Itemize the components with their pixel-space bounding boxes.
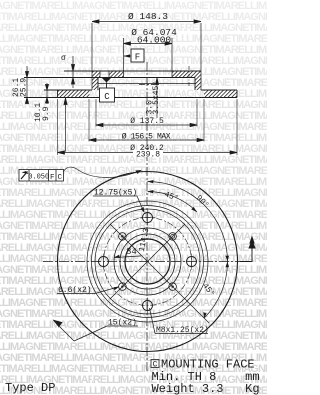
dim 148.3 [92,21,201,23]
chamfer leader [156,78,158,118]
dim sigma [72,56,74,88]
text dia 240.2/239.8 [133,150,163,157]
hatch right friction ring [204,90,237,98]
braking band inner circle [87,201,208,322]
cavity inner edge [98,83,195,85]
svg-text:F: F [50,174,55,182]
F datum box [124,49,144,62]
OD edge left [57,90,59,98]
C datum box + triangle [102,78,111,83]
right bolt hole centerline [188,66,190,87]
hatch left wall [92,78,98,91]
hat left edge / wall [91,23,93,90]
dim 64 [124,43,173,45]
svg-text:Type DP: Type DP [5,381,55,395]
hatch left friction ring [58,90,90,98]
bolt hole cross ticks [104,210,192,314]
svg-text:σ: σ [61,54,66,63]
flatness feature control frame [19,167,140,181]
angle dimension arcs [148,182,228,319]
dim 156.5 [89,139,204,141]
bolt holes [99,213,197,311]
hatch hat band mid-left [109,71,124,78]
ring top right [201,89,237,91]
svg-text:Ø 148.3: Ø 148.3 [128,11,168,22]
dim 240.2 [58,152,238,154]
small hole center dots [121,235,123,237]
table bottom right [151,360,159,368]
outer circle [58,172,238,352]
friction bottom face [24,97,237,99]
svg-text:64.000: 64.000 [137,35,172,46]
bore edge left [123,38,125,78]
surface leader arrow left [65,99,67,152]
bore edge right [171,38,173,78]
hatch hat band right [172,71,201,78]
bolt hole edges in section [99,71,101,78]
svg-text:0.050: 0.050 [28,174,49,182]
svg-text:84: 84 [126,247,137,257]
svg-text:239.8: 239.8 [136,151,160,160]
rotation arrow right [240,248,252,262]
center bore [125,239,170,284]
svg-text:Weight 3.3 Kg: Weight 3.3 Kg [152,382,260,395]
label 84 hub [114,256,141,258]
hat right edge / wall [200,23,202,90]
dim 10.1/9.9 [46,83,48,104]
bolt circle (dash-dot) [104,218,192,306]
svg-text:Ø 156.5 MAX: Ø 156.5 MAX [122,133,171,142]
axis cross tick [139,84,155,86]
dim 26.1/25.9 [26,66,28,104]
ring top left [44,89,92,91]
hat top face [64,70,201,72]
svg-text:25.9: 25.9 [20,78,29,97]
diagonal centerlines [110,224,185,299]
svg-text:9.9: 9.9 [42,106,51,121]
mounting face line [24,77,195,79]
wall inner left [97,78,99,91]
svg-text:Ø 137.5: Ø 137.5 [130,117,164,126]
hub circles [114,228,181,295]
svg-text:F: F [135,53,140,63]
hatch right wall [195,78,201,91]
horizontal centerline [43,261,252,263]
dim 137.5 [96,124,197,126]
hatch hat band left [92,71,100,78]
small holes [119,233,177,291]
OD edge right [236,90,238,98]
hat circles [92,206,204,318]
dim texts [12,11,177,160]
svg-text:C: C [153,361,158,370]
svg-text:3.0: 3.0 [146,100,155,115]
centerline axis [146,62,148,372]
svg-text:C: C [104,92,110,102]
svg-text:C: C [58,174,63,182]
extension lines down from disc [57,99,59,155]
wall inner right [194,78,196,91]
